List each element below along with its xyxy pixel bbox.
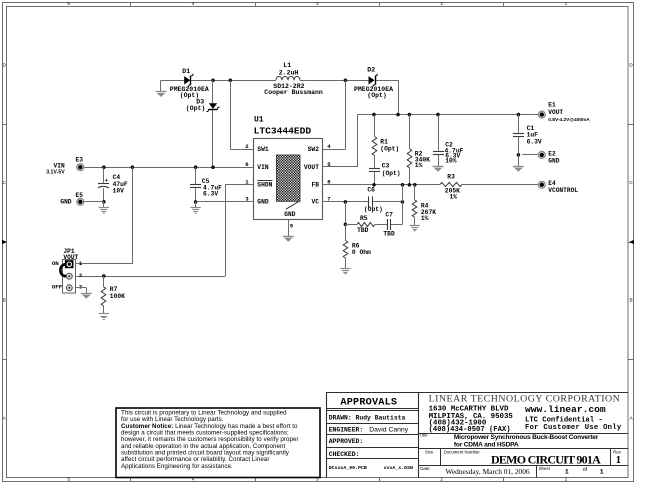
ground (C2) [433,166,444,168]
svg-text:Micropower Synchronous Buck-Bo: Micropower Synchronous Buck-Boost Conver… [454,434,599,441]
resistor R3 205K [440,182,462,186]
svg-text:Cooper Bussmann: Cooper Bussmann [264,89,323,96]
svg-text:1%: 1% [415,162,423,169]
capacitor C5 [195,167,197,184]
svg-text:xxxA_x.DSN: xxxA_x.DSN [384,465,413,471]
resistor R7 100K [103,276,105,287]
resistor R4 267K [414,185,416,200]
svg-text:D2: D2 [367,66,375,73]
svg-text:(408)434-0507 (FAX): (408)434-0507 (FAX) [429,426,511,434]
capacitor C6 (Opt) [368,196,370,207]
svg-text:of: of [583,467,588,473]
svg-text:SW2: SW2 [308,146,320,153]
svg-text:SHDN: SHDN [257,181,272,188]
node: R1 branch [372,113,376,117]
notice box [116,408,320,478]
svg-text:TBD: TBD [357,227,369,234]
node: D2 rail junction [396,113,400,117]
svg-text:E2: E2 [548,151,556,158]
svg-text:1: 1 [565,1,568,6]
svg-text:For Customer Use Only: For Customer Use Only [525,424,622,432]
title block [327,392,628,394]
wire: SHDN net [225,184,253,186]
resistor R2 340K [409,115,411,149]
inductor L1 [276,76,300,80]
svg-text:1: 1 [565,477,568,482]
svg-text:LTC3444EDD: LTC3444EDD [254,126,312,137]
resistor R5 TBD [345,224,357,226]
node: R4 top [413,183,417,187]
ground (C5) [195,202,197,208]
svg-text:Applications Engineering for a: Applications Engineering for assistance. [121,463,233,470]
svg-text:C3: C3 [382,162,390,169]
wire: VOUT pin to rail [323,166,358,168]
date/sheet row [418,465,628,467]
title row [418,433,628,435]
svg-text:1%: 1% [450,194,458,201]
wire: FB to C7 vertical [402,185,404,225]
node: C1 bottom / E2 [517,153,521,157]
svg-text:0.8V-4.2V@400mA: 0.8V-4.2V@400mA [548,117,590,123]
svg-text:(Opt): (Opt) [380,145,399,152]
svg-text:GND: GND [548,158,559,165]
svg-text:R5: R5 [360,215,368,222]
svg-text:2: 2 [440,477,443,482]
terminal E3 [77,164,84,171]
svg-text:ENGINEER:: ENGINEER: [329,426,364,433]
ground (R7) [99,313,109,315]
svg-text:1: 1 [565,469,569,476]
wire: VC down to R5 [345,202,347,225]
svg-text:6.3V: 6.3V [203,191,218,198]
svg-text:DRAWN: Rudy Bautista: DRAWN: Rudy Bautista [329,415,406,422]
svg-text:0 Ohm: 0 Ohm [352,249,371,256]
wire: VIN to JP1 pin1 [132,167,134,264]
op-amp U1 LTC3444EDD [254,139,323,220]
svg-text:C6: C6 [367,187,375,194]
svg-text:4: 4 [192,1,195,6]
node: C6 vertical [401,183,405,187]
svg-text:E4: E4 [548,180,556,187]
capacitor C2 4.7uF [438,115,440,151]
JP1 pin 1 [66,261,73,268]
diode D2 [369,76,375,84]
JP1 pin 3 [66,285,72,291]
node: D3 top junction [211,79,215,83]
svg-text:FB: FB [311,181,319,188]
svg-text:10V: 10V [113,188,125,195]
svg-text:SW1: SW1 [257,146,269,153]
svg-text:R3: R3 [447,174,455,181]
node: JP1 branch [131,165,135,169]
node: SW2 junction [344,79,348,83]
wire: SW2 branch [345,80,347,149]
svg-text:VOUT: VOUT [548,109,563,116]
size/docnum row [418,448,628,450]
ground (C4) [103,202,105,208]
node: R7 junction [102,274,106,278]
diode D3 [209,103,217,109]
wire: VOUT rail [357,114,538,116]
node: C1 top [517,113,521,117]
svg-text:OFF: OFF [52,283,63,290]
svg-text:for CDMA and HSDPA: for CDMA and HSDPA [454,442,519,449]
svg-text:2: 2 [440,1,443,6]
svg-text:Date:: Date: [420,466,430,471]
node: SW1 junction [229,79,233,83]
svg-text:APPROVALS: APPROVALS [340,398,397,409]
wire: JP1 pin3 to ground [76,287,87,289]
svg-text:(Opt): (Opt) [382,170,401,177]
svg-text:APPROVED:: APPROVED: [329,438,364,445]
svg-text:1: 1 [600,469,604,476]
svg-text:Rev: Rev [613,449,621,454]
terminal E5 [77,198,84,205]
svg-text:VIN: VIN [54,163,65,170]
ground (R4) [410,225,420,227]
svg-text:10%: 10% [445,157,457,164]
svg-text:2.2uH: 2.2uH [279,69,299,76]
svg-text:U1: U1 [254,116,264,125]
terminal E4 VCONTROL [538,181,545,188]
terminal E2 GND [522,154,538,156]
U1 pin 9 ground [288,219,290,236]
svg-text:David Canny: David Canny [369,426,409,433]
ground (R6) [340,268,350,270]
capacitor C1 1uF [518,115,520,133]
svg-text:R7: R7 [110,286,118,293]
svg-text:(Opt): (Opt) [186,105,206,112]
svg-text:VIN: VIN [257,164,269,171]
wire: top SW1 rail [161,80,184,82]
svg-text:5: 5 [67,477,70,482]
svg-text:100K: 100K [110,293,125,300]
wire: U1 GND pin to C5 [196,201,254,203]
svg-text:Wednesday, March 01, 2006: Wednesday, March 01, 2006 [446,467,530,476]
svg-text:ON: ON [52,260,59,267]
svg-text:GND: GND [284,211,295,218]
ground (JP1) [81,293,92,295]
wire: E5 to C4 [84,201,104,203]
svg-text:Sheet: Sheet [539,466,551,471]
resistor R1 (Opt) [374,115,376,137]
wire: VC net [323,201,369,203]
svg-text:VCONTROL: VCONTROL [548,187,578,194]
svg-text:VOUT: VOUT [304,164,319,171]
node: C5 bottom / U1 GND [194,200,198,204]
terminal E1 VOUT [538,111,545,118]
svg-text:(Opt): (Opt) [364,206,383,213]
node: VC branch [344,200,348,204]
U1 exposed pad [277,155,301,201]
svg-text:DCxxxA_00.PCB: DCxxxA_00.PCB [329,465,367,471]
svg-text:C7: C7 [385,212,393,219]
svg-text:E5: E5 [76,192,84,199]
svg-text:VC: VC [311,199,319,206]
svg-text:TBD: TBD [383,230,395,237]
capacitor C7 TBD [387,219,389,230]
wire: D2 cathode to VOUT rail [398,80,400,114]
wire: VIN rail [84,167,253,169]
svg-text:B: B [3,298,6,303]
svg-text:DEMO CIRCUIT 901A: DEMO CIRCUIT 901A [491,453,601,467]
svg-text:LINEAR TECHNOLOGY CORPORATION: LINEAR TECHNOLOGY CORPORATION [429,394,621,405]
svg-text:3.1V-5V: 3.1V-5V [46,170,65,176]
node: D3 bottom [211,165,215,169]
JP1 pin 2 [66,273,72,279]
svg-text:Document Number: Document Number [444,450,481,455]
svg-text:6.3V: 6.3V [527,138,542,145]
svg-text:Size: Size [425,449,434,454]
node: C6 right [401,200,405,204]
ground (C1) [518,155,520,166]
svg-text:CHECKED:: CHECKED: [329,451,360,458]
JP1 ON bracket [60,264,66,276]
svg-text:E3: E3 [76,157,84,164]
svg-text:B: B [629,298,632,303]
node: R2 bottom [408,183,412,187]
node: R5/R6 junction [344,223,348,227]
diode D1 [184,76,190,84]
svg-text:D1: D1 [182,68,190,75]
svg-text:E1: E1 [548,102,556,109]
svg-text:5: 5 [67,1,70,6]
resistor R6 0 Ohm [345,224,347,240]
wire: FB rail [323,184,441,186]
node: C4 [102,165,106,169]
node: C5 [194,165,198,169]
approvals table [327,408,418,410]
svg-text:1: 1 [616,455,621,466]
node: C4 bottom / E5 [102,200,106,204]
wire: SW1 branch [230,80,232,149]
svg-text:L1: L1 [283,62,291,69]
svg-text:1%: 1% [421,215,429,222]
node: R2 top [408,113,412,117]
ground (D1 anode) [156,91,167,93]
svg-text:Title: Title [420,433,429,438]
svg-text:(Opt): (Opt) [367,92,387,99]
wire: D3 branch [212,80,214,103]
svg-text:www.linear.com: www.linear.com [525,404,606,415]
svg-text:3: 3 [316,1,319,6]
node: R1/C3 bottom [372,183,376,187]
node: C2 top [436,113,440,117]
capacitor C3 (Opt) [369,168,380,170]
svg-text:GND: GND [257,199,269,206]
capacitor C4 [103,167,105,183]
svg-text:GND: GND [60,198,71,205]
